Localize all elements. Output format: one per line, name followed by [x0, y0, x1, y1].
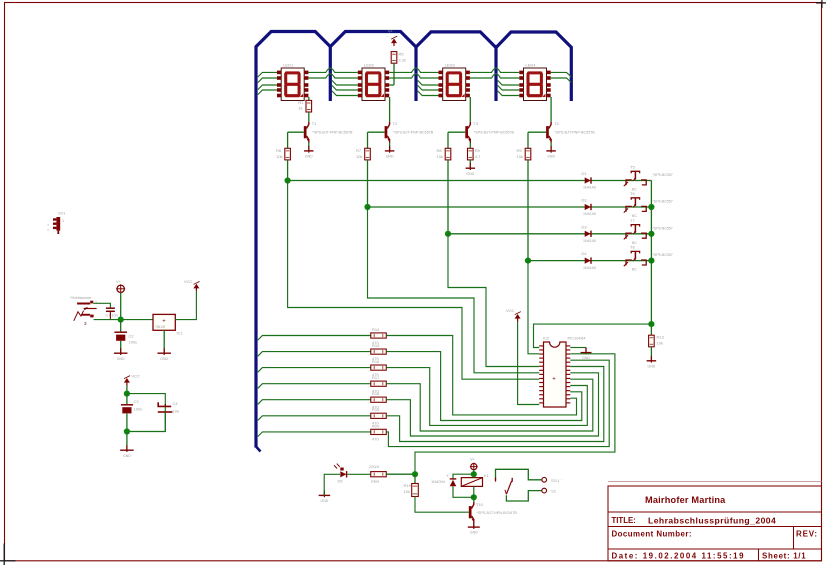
wire VCC arrow to IC pin — [518, 322, 540, 405]
segment net 7: bus entry, resistor R20, route to IC — [258, 432, 371, 437]
ground under C2 — [120, 348, 122, 355]
junction digit row 2 — [364, 204, 370, 210]
connector SV1 — [56, 217, 60, 231]
svg-text:V+: V+ — [388, 30, 394, 34]
wire display 4 common pin down to transistor T4 — [550, 97, 552, 122]
svg-text:TITLE:: TITLE: — [612, 516, 636, 525]
capacitor C1 at jack — [106, 307, 115, 309]
IC U1 left pins — [539, 346, 543, 403]
svg-text:VCC: VCC — [506, 308, 515, 313]
svg-text:LED1: LED1 — [283, 63, 294, 68]
relay contact terminal S1 — [542, 477, 547, 482]
transistor T10 (BC547) — [469, 506, 472, 518]
svg-text:GND: GND — [648, 364, 656, 368]
svg-text:C4: C4 — [173, 401, 179, 406]
svg-text:S2/1: S2/1 — [551, 478, 560, 483]
7-segment display LED4 — [519, 63, 550, 101]
corner mark top-right — [816, 2, 826, 4]
wires from display 4 right pins to right bus drop — [551, 72, 572, 76]
wire display 3 common pin down to transistor T3 — [469, 97, 471, 122]
svg-text:Date: 19.02.2004 11:55:19: Date: 19.02.2004 11:55:19 — [612, 551, 746, 560]
wire regulator to ground — [163, 330, 165, 353]
svg-text:SV1: SV1 — [58, 211, 66, 216]
triac T8 — [631, 251, 639, 253]
svg-text:V+: V+ — [116, 279, 122, 284]
emitter wire T10 to ground — [473, 523, 475, 527]
svg-text:PER: PER — [371, 479, 379, 484]
IC U1 right pins — [566, 346, 570, 403]
svg-text:1N4148: 1N4148 — [583, 186, 596, 190]
ground under T10 — [473, 522, 475, 529]
base wire T4 to base resistor — [528, 131, 546, 133]
svg-text:1N4148: 1N4148 — [583, 239, 596, 243]
svg-text:*SPS-BC557: *SPS-BC557 — [653, 173, 673, 177]
svg-text:*SPS-BC557: *SPS-BC557 — [653, 200, 673, 204]
wire R19 to transistor T10 base — [415, 497, 469, 513]
svg-text:C1 10n: C1 10n — [106, 314, 118, 318]
ground at LED cathode — [323, 490, 325, 497]
svg-text:R16: R16 — [372, 359, 380, 364]
svg-text:10k: 10k — [517, 154, 523, 159]
svg-text:GND: GND — [305, 155, 313, 159]
svg-text:Document Number:: Document Number: — [612, 530, 692, 539]
net digit3 from row junction to IC pin — [448, 234, 539, 367]
svg-text:470: 470 — [372, 437, 379, 442]
net IC to relay driver — [415, 354, 615, 474]
supply arrow above filter — [126, 380, 128, 386]
svg-text:D2: D2 — [582, 198, 588, 203]
svg-text:100u: 100u — [129, 340, 138, 345]
wire regulator output to VCC arrow — [175, 291, 196, 319]
segment wires display 1 to display 2 hopping bus drop — [308, 68, 357, 72]
wire filter to ground — [126, 432, 128, 450]
net digit2 from row junction to IC pin — [368, 207, 540, 373]
wire T10 collector to relay coil — [473, 497, 475, 502]
svg-text:1: 1 — [62, 219, 64, 223]
svg-text:100n: 100n — [134, 407, 143, 412]
svg-text:*SPS-BC557: *SPS-BC557 — [653, 253, 673, 257]
wire R9 to ground — [469, 160, 471, 168]
wire R18 to junction — [386, 473, 415, 475]
svg-text:R15: R15 — [372, 343, 380, 348]
svg-text:R13: R13 — [657, 335, 665, 340]
wire base resistor down to digit row 4 — [527, 160, 529, 261]
svg-text:R19: R19 — [404, 483, 412, 488]
triac T6 — [631, 198, 639, 200]
wire ground up to LED — [324, 474, 340, 495]
resistor R1 under display 1 — [306, 100, 312, 112]
diode D2 — [585, 204, 591, 210]
svg-text:10k: 10k — [276, 154, 282, 159]
digit row 2 wire — [368, 206, 652, 208]
svg-text:T4: T4 — [554, 121, 559, 126]
segment net 4: bus entry, resistor R17, route to IC — [258, 384, 371, 389]
svg-text:1N4004: 1N4004 — [431, 479, 446, 484]
segment wires display 2 to display 3 hopping bus drop — [389, 68, 438, 72]
svg-text:T3: T3 — [473, 121, 478, 126]
svg-text:R5: R5 — [399, 52, 405, 57]
wire jack pin1 to capacitor C1 — [93, 303, 110, 307]
filter loop wire — [127, 394, 165, 432]
svg-text:*SPS-BJT-PNP-BC557B: *SPS-BJT-PNP-BC557B — [474, 131, 515, 135]
supply terminal above power junction — [117, 285, 124, 292]
right rail wire down from digit rows — [650, 181, 652, 336]
svg-text:3: 3 — [84, 321, 87, 326]
wire from R5 down to display 2 segment row — [393, 63, 395, 85]
digit row 4 wire — [528, 260, 651, 262]
svg-text:VCC: VCC — [184, 279, 193, 284]
svg-text:T7: T7 — [630, 218, 635, 223]
svg-text:IC2: IC2 — [543, 336, 550, 341]
IC U1 (microcontroller) body — [544, 342, 567, 407]
svg-text:R14: R14 — [372, 327, 380, 332]
svg-text:+: + — [552, 377, 556, 383]
svg-text:GND: GND — [386, 155, 394, 159]
supply terminal above relay coil — [471, 464, 477, 470]
triac T5 — [631, 171, 639, 173]
svg-text:K1: K1 — [484, 473, 490, 478]
emitter wire T4 to ground — [550, 143, 552, 151]
svg-text:1k: 1k — [298, 106, 302, 111]
ground under regulator — [163, 348, 165, 355]
svg-text:C3: C3 — [134, 399, 140, 404]
svg-text:R18: R18 — [372, 391, 380, 396]
voltage regulator IC1 (78L05) — [153, 314, 175, 330]
bus B1 top outline and vertical drops — [256, 32, 571, 448]
7-segment display LED2 — [358, 63, 389, 101]
svg-text:T2: T2 — [393, 121, 398, 126]
base wire T1 to base resistor — [288, 131, 304, 133]
bus drop between display 2 and 3 — [414, 45, 417, 101]
wires from bus drop 3 to display 4 left pins — [498, 80, 520, 85]
wire display 1 common pin down to transistor T1 — [308, 97, 310, 100]
svg-text:LED2: LED2 — [364, 63, 375, 68]
segment net 1: bus entry, resistor R14, route to IC — [258, 336, 371, 341]
svg-text:GND: GND — [582, 356, 590, 360]
junction digit row 3 at right rail — [648, 231, 654, 237]
junction digit row 4 at right rail — [648, 258, 654, 264]
emitter resistor R9 of T3 — [469, 143, 471, 149]
origin cross mark bottom-left corner — [3, 544, 5, 565]
base resistor R7 — [365, 148, 371, 160]
svg-text:T8: T8 — [630, 245, 635, 250]
transistor T1 (BC557) — [304, 126, 307, 138]
junction relay net — [412, 471, 418, 477]
supply arrow above display 2 — [393, 40, 395, 46]
VCC arrow feeding IC — [517, 316, 519, 322]
resistor R13 on right rail — [649, 335, 655, 347]
svg-text:VCC: VCC — [132, 374, 141, 379]
wires from bus drop 1 to display 2 left pins — [332, 80, 358, 85]
svg-text:LED4: LED4 — [526, 63, 537, 68]
transistor T3 (BC557) — [465, 126, 468, 138]
wire display 2 common pin down to transistor T2 — [389, 97, 391, 122]
diode D3 — [585, 231, 591, 237]
junction right rail — [648, 321, 654, 327]
segment net 2: bus entry, resistor R15, route to IC — [258, 352, 371, 357]
relay contact — [496, 469, 542, 480]
svg-text:R19: R19 — [372, 407, 380, 412]
base wire T2 to base resistor — [368, 131, 385, 133]
svg-text:D1: D1 — [582, 171, 588, 176]
svg-text:R6: R6 — [276, 148, 282, 153]
wire jack to regulator — [94, 319, 153, 321]
svg-text:+: + — [162, 318, 165, 324]
svg-text:*SPS-BJT-PNP-BC557B: *SPS-BJT-PNP-BC557B — [555, 131, 596, 135]
segment net 5: bus entry, resistor R18, route to IC — [258, 400, 371, 405]
svg-text:10u: 10u — [173, 409, 180, 414]
7-segment display LED3 — [439, 63, 470, 101]
wire base resistor down to digit row 3 — [447, 160, 449, 234]
svg-text:GND: GND — [470, 531, 478, 535]
svg-text:Mairhofer Martina: Mairhofer Martina — [645, 495, 726, 505]
junction digit row 3 — [445, 231, 451, 237]
emitter wire T1 to ground — [308, 143, 310, 151]
wire R1 to transistor T1 collector — [308, 112, 310, 122]
svg-text:IC1: IC1 — [177, 331, 184, 336]
ground under filter — [126, 445, 128, 452]
ground under T4 — [550, 146, 552, 153]
svg-text:*SPS-BC557: *SPS-BC557 — [653, 226, 673, 230]
svg-text:1N4148: 1N4148 — [583, 212, 596, 216]
emitter wire T2 to ground — [389, 143, 391, 151]
ground under T2 — [389, 146, 391, 153]
svg-text:PIC16F84: PIC16F84 — [568, 336, 587, 341]
triac T7 — [631, 225, 639, 227]
svg-text:10k: 10k — [356, 154, 362, 159]
svg-text:1N4148: 1N4148 — [583, 266, 596, 270]
svg-text:220/4: 220/4 — [369, 464, 380, 469]
svg-text:R20: R20 — [372, 423, 380, 428]
svg-text:D5: D5 — [338, 479, 344, 484]
svg-text:S2: S2 — [551, 489, 557, 494]
resistor R19 below junction — [414, 474, 416, 483]
wires from bus to display 1 left pins — [258, 72, 277, 77]
svg-text:LED3: LED3 — [445, 63, 456, 68]
svg-text:D3: D3 — [582, 224, 588, 229]
diode D4 — [585, 258, 591, 264]
svg-text:GND: GND — [123, 454, 131, 458]
svg-text:GND: GND — [160, 357, 168, 361]
wire LED to resistor R18 — [347, 473, 370, 475]
LED D5 — [340, 471, 346, 477]
capacitor C4 (electrolytic) — [164, 404, 166, 406]
title block frame — [608, 481, 822, 483]
svg-text:*SPS-BJT-PNP-BC557B: *SPS-BJT-PNP-BC557B — [312, 131, 353, 135]
resistor R5 above display 2 — [391, 52, 397, 64]
net right-rail to IC pin 1 — [534, 324, 652, 347]
wire R13 to ground — [650, 347, 652, 361]
wire supply terminal down to junction — [120, 293, 122, 320]
svg-text:*Hohlstecker: *Hohlstecker — [70, 296, 92, 300]
svg-text:*SPS-BJT-NPN-BC547B: *SPS-BJT-NPN-BC547B — [477, 511, 518, 515]
wire supply to coil junction — [473, 470, 475, 475]
svg-text:*SPS-BJT-PNP-BC557B: *SPS-BJT-PNP-BC557B — [393, 131, 434, 135]
transistor T2 (BC557) — [385, 126, 388, 138]
electrolytic capacitor C2 — [120, 320, 122, 332]
bus bottom tail — [256, 447, 261, 452]
junction digit row 1 — [285, 177, 291, 183]
svg-text:GND: GND — [321, 499, 329, 503]
svg-text:R1: R1 — [298, 100, 304, 105]
svg-text:R9: R9 — [475, 148, 481, 153]
svg-text:Sheet: 1/1: Sheet: 1/1 — [762, 551, 806, 560]
wire base resistor down to digit row 1 — [287, 160, 289, 181]
digit row 1 wire — [288, 180, 652, 182]
relay contact lower path — [506, 491, 541, 501]
diode D1 — [585, 177, 591, 183]
wire base resistor down to digit row 2 — [367, 160, 369, 207]
net digit1 from row junction to IC pin — [288, 181, 540, 380]
ground at IC pin 1 — [585, 348, 587, 355]
junction relay coil top — [471, 471, 477, 477]
junction filter bottom — [124, 428, 130, 434]
junction digit row 4 — [525, 258, 531, 264]
svg-text:T6: T6 — [630, 191, 635, 196]
wire C2 to ground — [120, 341, 122, 353]
svg-text:2,2k: 2,2k — [399, 58, 407, 63]
ground under T1 — [308, 146, 310, 153]
resistor R18 — [371, 472, 387, 477]
junction digit row 2 at right rail — [648, 204, 654, 210]
segment wires display 3 to display 4 hopping bus drop — [470, 68, 519, 72]
svg-text:V+: V+ — [470, 457, 476, 462]
digit row 3 wire — [448, 233, 651, 235]
base resistor R6 — [285, 148, 291, 160]
svg-text:R17: R17 — [372, 375, 380, 380]
svg-text:4,7: 4,7 — [475, 154, 481, 159]
VCC arrow at regulator output — [195, 285, 197, 291]
svg-text:GND: GND — [547, 155, 555, 159]
junction power input — [118, 317, 124, 323]
svg-text:R8: R8 — [437, 148, 443, 153]
capacitor C3 — [126, 394, 128, 405]
7-segment display LED1 — [277, 63, 308, 101]
svg-text:78L05: 78L05 — [155, 325, 165, 329]
IC right pin 1 wire to ground — [570, 347, 586, 349]
base wire T3 to base resistor — [448, 131, 465, 133]
svg-text:R7: R7 — [356, 148, 362, 153]
svg-text:GND: GND — [117, 357, 125, 361]
base resistor R8 — [445, 148, 451, 160]
ground under T3 emitter resistor — [469, 163, 471, 170]
svg-text:T5: T5 — [630, 165, 635, 170]
svg-text:10k: 10k — [404, 489, 410, 494]
svg-text:BC: BC — [632, 268, 637, 272]
wires from bus drop 2 to display 3 left pins — [418, 80, 439, 85]
base resistor R9 — [525, 148, 531, 160]
svg-text:D4: D4 — [582, 251, 588, 256]
transistor T4 (BC557) — [546, 126, 549, 138]
bus drop between display 3 and 4 — [494, 45, 497, 101]
segment net 6: bus entry, resistor R19, route to IC — [258, 416, 371, 421]
ground under R13 — [650, 356, 652, 363]
svg-text:GND: GND — [466, 172, 474, 176]
svg-text:T10: T10 — [476, 502, 484, 507]
svg-text:T1: T1 — [312, 121, 317, 126]
svg-text:10k: 10k — [437, 154, 443, 159]
svg-text:..: .. — [561, 476, 563, 481]
relay contact terminal S2 — [542, 488, 547, 493]
svg-text:Lehrabschlussprüfung_2004: Lehrabschlussprüfung_2004 — [648, 515, 776, 525]
relay coil K1 — [461, 478, 482, 487]
freewheel diode D6 — [453, 474, 474, 479]
svg-text:REV:: REV: — [796, 530, 818, 539]
svg-text:R9: R9 — [517, 148, 523, 153]
bus drop between display 1 and 2 — [329, 45, 332, 101]
net digit4 from row junction to IC pin — [528, 261, 539, 354]
svg-text:10k: 10k — [657, 341, 663, 346]
segment net 3: bus entry, resistor R16, route to IC — [258, 368, 371, 373]
svg-text:C2: C2 — [129, 334, 135, 339]
junction relay coil bottom — [471, 494, 477, 500]
junction filter top — [124, 391, 130, 397]
